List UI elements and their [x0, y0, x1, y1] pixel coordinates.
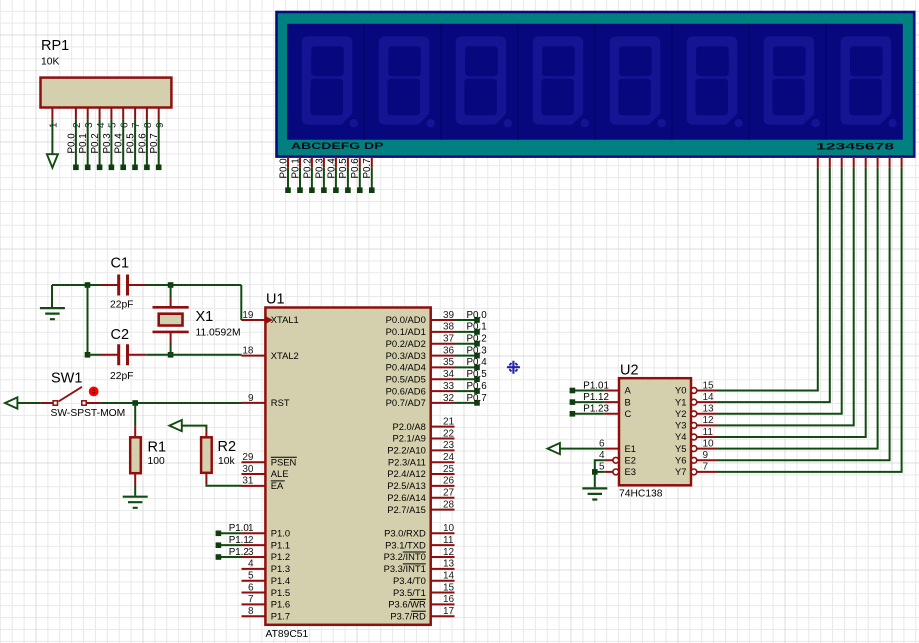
svg-text:100: 100: [148, 456, 165, 467]
svg-text:21: 21: [443, 416, 455, 427]
svg-text:35: 35: [443, 357, 455, 368]
ground arrow below RP1 pin 1: [47, 154, 58, 168]
SW1 actuator button: [89, 387, 99, 397]
svg-text:38: 38: [443, 322, 455, 333]
svg-text:P0.0/AD0: P0.0/AD0: [386, 314, 426, 325]
svg-text:31: 31: [242, 476, 254, 487]
svg-text:36: 36: [443, 345, 455, 356]
junction crystal top: [168, 282, 174, 288]
svg-text:P0.0: P0.0: [278, 158, 289, 179]
svg-text:Y0: Y0: [675, 385, 686, 396]
terminal P1.0 at U2: [570, 388, 576, 394]
svg-text:P2.5/A13: P2.5/A13: [387, 480, 426, 491]
svg-text:11: 11: [703, 427, 714, 438]
svg-text:P2.4/A12: P2.4/A12: [387, 468, 426, 479]
svg-text:C: C: [625, 408, 632, 419]
svg-text:P0.5: P0.5: [126, 133, 137, 154]
svg-text:P3.5/T1: P3.5/T1: [393, 587, 426, 598]
svg-text:6: 6: [119, 122, 130, 128]
svg-text:39: 39: [443, 310, 455, 321]
RP1 net terminals: [73, 165, 161, 171]
wire display digit 7 to U2 Y6: [717, 167, 890, 460]
svg-text:P0.2: P0.2: [302, 158, 313, 178]
svg-text:EA: EA: [271, 480, 284, 491]
wire U1 P1.1 to terminal: [221, 544, 242, 546]
wire display digit 4 to U2 Y3: [717, 167, 854, 425]
svg-text:X1: X1: [196, 309, 214, 325]
svg-text:A: A: [625, 385, 632, 396]
wire SW1 to RST pin: [101, 402, 242, 404]
U1 right pin stubs: [431, 320, 455, 616]
svg-text:P1.3: P1.3: [271, 563, 290, 574]
svg-text:18: 18: [242, 345, 254, 356]
svg-text:P1.1: P1.1: [271, 539, 290, 550]
wire display digit 2 to U2 Y1: [717, 167, 830, 402]
svg-text:25: 25: [443, 464, 455, 475]
svg-text:26: 26: [443, 476, 455, 487]
svg-text:E2: E2: [625, 455, 636, 466]
svg-text:ABCDEFG DP: ABCDEFG DP: [291, 141, 384, 151]
svg-text:16: 16: [443, 594, 455, 605]
ground below C1 left: [51, 285, 53, 307]
resistor pack RP1: [41, 78, 172, 108]
ground below R1: [123, 497, 148, 508]
svg-text:Y2: Y2: [675, 408, 686, 419]
capacitor C2: [101, 354, 147, 356]
svg-text:P0.2/AD2: P0.2/AD2: [386, 338, 426, 349]
RP1 pin wires: [76, 119, 159, 165]
U2 left pin numbers E1 E2 E3: [599, 438, 605, 472]
svg-text:E1: E1: [625, 443, 636, 454]
RP1 pin numbers 1-9: [49, 122, 166, 128]
svg-text:P1.5: P1.5: [271, 587, 290, 598]
svg-text:9: 9: [155, 122, 166, 128]
resistor R2: [205, 429, 207, 437]
svg-text:P0.7: P0.7: [362, 158, 373, 178]
display digit cells: [302, 24, 897, 140]
svg-text:13: 13: [703, 404, 715, 415]
svg-text:1: 1: [49, 122, 60, 128]
U2 right pin numbers: [703, 380, 715, 472]
RP1 pin 1 wire: [51, 119, 53, 154]
junction crystal bottom: [168, 352, 174, 358]
U1 port0 net terminals: [474, 317, 480, 406]
display segment pin stubs: [288, 157, 372, 168]
svg-text:P3.6/WR: P3.6/WR: [388, 599, 426, 610]
svg-text:C2: C2: [111, 327, 130, 343]
svg-text:P0.1: P0.1: [290, 158, 301, 178]
wires to segment terminals: [288, 167, 372, 188]
svg-text:4: 4: [96, 122, 107, 128]
svg-text:P0.5/AD5: P0.5/AD5: [386, 373, 426, 384]
wires U1 port0 to terminals: [455, 320, 478, 403]
capacitor C1: [101, 284, 147, 286]
U1 right pin names: [384, 314, 426, 621]
segment net terminals: [285, 187, 374, 193]
svg-text:12345678: 12345678: [816, 142, 894, 152]
svg-text:P2.6/A14: P2.6/A14: [387, 492, 426, 503]
U2 right pin bubbles: [691, 388, 697, 475]
svg-text:P2.2/A10: P2.2/A10: [387, 445, 426, 456]
svg-text:9: 9: [703, 450, 709, 461]
schematic origin marker: [507, 361, 520, 374]
U1 right pin numbers: [443, 310, 455, 617]
svg-text:14: 14: [703, 392, 715, 403]
display digit pin stubs: [818, 157, 902, 168]
svg-text:23: 23: [443, 440, 455, 451]
svg-text:P0.5: P0.5: [338, 158, 349, 179]
wire R1 to ground: [134, 485, 136, 496]
svg-text:P2.1/A9: P2.1/A9: [392, 433, 425, 444]
svg-text:P1.1: P1.1: [229, 535, 249, 546]
svg-text:9: 9: [248, 393, 254, 404]
junction E3: [592, 469, 598, 475]
svg-text:37: 37: [443, 334, 455, 345]
wire U1 P1.0 to terminal: [221, 532, 242, 534]
svg-text:34: 34: [443, 369, 455, 380]
svg-text:P2.3/A11: P2.3/A11: [388, 456, 426, 467]
svg-text:Y1: Y1: [675, 396, 686, 407]
terminal P1.2 at U2: [570, 411, 576, 417]
svg-text:P0.3: P0.3: [467, 345, 488, 356]
wire display digit 5 to U2 Y4: [717, 167, 866, 437]
svg-text:P0.6: P0.6: [137, 133, 148, 154]
svg-text:12: 12: [443, 547, 455, 558]
terminal P1.0: [216, 531, 222, 537]
wire U1 P1.2 to terminal: [221, 556, 242, 558]
svg-text:17: 17: [443, 606, 455, 617]
svg-text:P0.7: P0.7: [467, 393, 487, 404]
svg-text:P0.4: P0.4: [114, 133, 125, 154]
svg-text:24: 24: [443, 452, 455, 463]
input terminal arrow (RST net): [5, 397, 17, 408]
svg-text:C1: C1: [111, 256, 130, 272]
svg-text:5: 5: [108, 122, 119, 128]
svg-text:P1.12: P1.12: [583, 392, 609, 403]
svg-text:P0.4: P0.4: [467, 357, 488, 368]
svg-text:10K: 10K: [41, 57, 59, 68]
svg-text:P1.7: P1.7: [271, 611, 290, 622]
svg-text:P2.0/A8: P2.0/A8: [392, 421, 425, 432]
wire display digit 3 to U2 Y2: [717, 167, 842, 414]
svg-text:14: 14: [443, 571, 455, 582]
svg-text:19: 19: [242, 310, 254, 321]
svg-text:13: 13: [443, 559, 455, 570]
wire junction to R1: [134, 403, 136, 426]
U2 E2 E3 stubs with bubbles: [605, 460, 613, 472]
svg-text:RST: RST: [271, 397, 290, 408]
svg-text:R2: R2: [218, 439, 237, 455]
svg-text:Y5: Y5: [675, 443, 686, 454]
svg-text:7: 7: [131, 122, 142, 128]
wire XTAL1 net (C1 row): [52, 285, 244, 320]
vertical wire joining C1 and C2 rows: [87, 285, 89, 355]
svg-text:P0.4: P0.4: [326, 158, 337, 179]
svg-text:RP1: RP1: [41, 38, 69, 54]
svg-text:P0.1: P0.1: [467, 322, 487, 333]
svg-text:E3: E3: [625, 466, 636, 477]
svg-text:22pF: 22pF: [110, 371, 133, 382]
svg-text:ALE: ALE: [271, 468, 289, 479]
wire U2 input A: [575, 390, 605, 392]
crystal X1: [170, 285, 172, 355]
terminal P1.1: [216, 542, 222, 548]
input terminal arrow (E1 net): [548, 443, 560, 454]
8-digit 7-segment multiplexed display: [277, 12, 915, 157]
wire E1: [560, 448, 605, 450]
svg-text:Y6: Y6: [675, 455, 686, 466]
svg-text:6: 6: [248, 582, 254, 593]
svg-text:P3.2/INT0: P3.2/INT0: [384, 551, 426, 562]
svg-text:2: 2: [72, 122, 83, 128]
junction C2 row left: [85, 352, 91, 358]
svg-text:P3.7/RD: P3.7/RD: [390, 611, 426, 622]
svg-text:29: 29: [242, 452, 254, 463]
svg-text:P0.7/AD7: P0.7/AD7: [386, 397, 426, 408]
svg-text:5: 5: [248, 571, 254, 582]
svg-text:P0.0: P0.0: [467, 310, 488, 321]
svg-text:P1.0: P1.0: [271, 528, 290, 539]
svg-text:XTAL1: XTAL1: [271, 314, 299, 325]
wire E2 E3 to ground: [595, 460, 605, 487]
U1 XTAL1 clock mark: [267, 317, 274, 324]
wire display digit 6 to U2 Y5: [717, 167, 878, 448]
svg-text:P3.1/TXD: P3.1/TXD: [385, 539, 426, 550]
svg-text:P0.2: P0.2: [467, 334, 487, 345]
U1 left pin numbers: [242, 310, 254, 617]
svg-text:P3.4/T0: P3.4/T0: [393, 575, 426, 586]
svg-text:7: 7: [703, 462, 709, 473]
svg-text:27: 27: [443, 488, 455, 499]
svg-text:AT89C51: AT89C51: [266, 629, 309, 640]
svg-text:8: 8: [248, 606, 254, 617]
svg-text:P0.5: P0.5: [467, 369, 488, 380]
RP1 pin stubs: [52, 108, 158, 120]
svg-text:10: 10: [443, 523, 455, 534]
svg-text:12: 12: [703, 415, 715, 426]
svg-text:11: 11: [443, 535, 454, 546]
wire R2 bottom to EA pin: [206, 484, 241, 485]
svg-text:P1.23: P1.23: [583, 404, 609, 415]
wire C2 row (XTAL2 net): [88, 354, 242, 356]
U1 left pin stubs: [242, 320, 266, 616]
svg-text:SW-SPST-MOM: SW-SPST-MOM: [51, 408, 126, 419]
svg-text:P1.2: P1.2: [271, 551, 290, 562]
svg-text:28: 28: [443, 499, 455, 510]
svg-text:3: 3: [84, 122, 95, 128]
svg-text:Y7: Y7: [675, 466, 686, 477]
svg-text:P1.4: P1.4: [271, 575, 290, 586]
svg-text:10: 10: [703, 438, 715, 449]
svg-text:15: 15: [703, 380, 715, 391]
svg-text:P0.3/AD3: P0.3/AD3: [386, 350, 426, 361]
svg-text:33: 33: [443, 381, 455, 392]
U2 pin names: [625, 385, 687, 477]
svg-text:P0.0: P0.0: [66, 133, 77, 154]
input terminal arrow (EA net): [169, 420, 181, 431]
decoder U2 74HC138: [619, 378, 691, 485]
svg-text:P0.6: P0.6: [350, 158, 361, 179]
svg-text:11.0592M: 11.0592M: [196, 328, 241, 339]
U2 left pin stubs A B C E1: [605, 391, 619, 449]
terminal P1.1 at U2: [570, 399, 576, 405]
svg-text:10k: 10k: [218, 456, 235, 467]
svg-text:P0.3: P0.3: [102, 133, 113, 154]
svg-text:P0.2: P0.2: [90, 133, 101, 153]
svg-text:P3.3/INT1: P3.3/INT1: [384, 563, 426, 574]
svg-text:P0.7: P0.7: [149, 133, 160, 153]
svg-text:P0.1: P0.1: [78, 133, 89, 153]
svg-text:4: 4: [248, 559, 254, 570]
svg-text:P1.6: P1.6: [271, 599, 290, 610]
svg-text:XTAL2: XTAL2: [271, 350, 299, 361]
svg-text:P1.0: P1.0: [229, 523, 250, 534]
wire display digit 8 to U2 Y7: [717, 167, 902, 472]
svg-text:22: 22: [443, 428, 455, 439]
svg-text:22pF: 22pF: [110, 300, 133, 311]
wire U2 input B: [575, 401, 605, 403]
wire arrow to R2 top: [182, 426, 207, 429]
svg-text:B: B: [625, 396, 631, 407]
svg-text:P0.6: P0.6: [467, 381, 488, 392]
svg-text:U1: U1: [266, 292, 285, 308]
svg-text:P0.6/AD6: P0.6/AD6: [386, 385, 426, 396]
svg-text:P1.01: P1.01: [583, 380, 609, 391]
svg-text:P0.4/AD4: P0.4/AD4: [386, 362, 426, 373]
svg-text:30: 30: [242, 464, 254, 475]
svg-text:8: 8: [143, 122, 154, 128]
svg-text:P3.0/RXD: P3.0/RXD: [384, 528, 426, 539]
U2 right pin stubs: [697, 391, 717, 472]
svg-text:7: 7: [248, 594, 254, 605]
wire U2 input C: [575, 413, 605, 415]
terminal P1.2: [216, 554, 222, 560]
svg-text:SW1: SW1: [51, 371, 82, 387]
svg-text:P1.2: P1.2: [229, 547, 249, 558]
svg-text:P0.3: P0.3: [314, 158, 325, 179]
resistor R1: [134, 426, 136, 437]
svg-text:PSEN: PSEN: [271, 456, 297, 467]
svg-text:Y3: Y3: [675, 420, 686, 431]
svg-text:74HC138: 74HC138: [619, 489, 663, 500]
ground below U2: [582, 488, 607, 499]
svg-text:15: 15: [443, 582, 455, 593]
svg-text:Y4: Y4: [675, 431, 686, 442]
svg-text:32: 32: [443, 393, 455, 404]
svg-text:U2: U2: [620, 363, 639, 379]
svg-text:P0.1/AD1: P0.1/AD1: [386, 326, 426, 337]
junction RST / R1: [132, 400, 138, 406]
microcontroller U1 AT89C51: [265, 308, 430, 625]
svg-text:R1: R1: [148, 439, 167, 455]
switch SW1: [41, 402, 53, 404]
wire display digit 1 to U2 Y0: [717, 167, 818, 390]
svg-text:P2.7/A15: P2.7/A15: [387, 504, 426, 515]
U1 left pin names: [271, 314, 299, 621]
junction C1 left / vertical: [85, 282, 91, 288]
